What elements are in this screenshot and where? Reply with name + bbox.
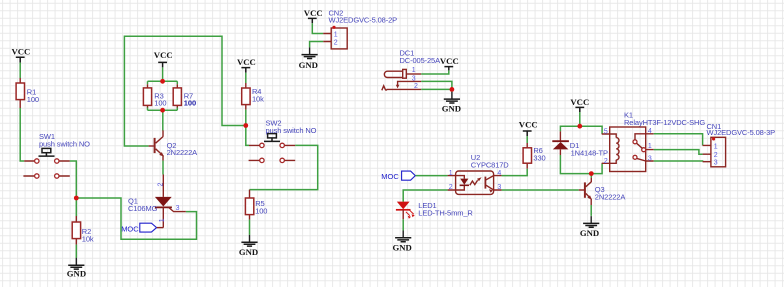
svg-text:VCC: VCC bbox=[440, 56, 459, 66]
ground (DC1) bbox=[442, 92, 461, 114]
junction bbox=[450, 87, 455, 92]
svg-text:3: 3 bbox=[648, 155, 652, 162]
transistor Q2 bbox=[149, 130, 198, 160]
wire bbox=[162, 161, 164, 175]
svg-text:3: 3 bbox=[412, 76, 416, 83]
wire bbox=[245, 110, 247, 126]
junction bbox=[243, 123, 248, 128]
wire bbox=[402, 219, 404, 230]
wire bbox=[249, 220, 251, 235]
junction bbox=[589, 171, 594, 176]
wire bbox=[70, 161, 77, 198]
wire bbox=[560, 126, 602, 134]
wire bbox=[654, 160, 703, 163]
svg-text:VCC: VCC bbox=[519, 120, 538, 130]
power VCC (net VCC, section 1) bbox=[12, 47, 31, 63]
wire bbox=[502, 169, 528, 176]
connector DC1 bbox=[382, 48, 440, 90]
power VCC (R6) bbox=[519, 120, 538, 137]
svg-text:1: 1 bbox=[159, 218, 166, 222]
wire bbox=[654, 150, 703, 155]
svg-text:100: 100 bbox=[255, 207, 267, 216]
wire bbox=[654, 134, 703, 146]
wire bbox=[310, 42, 324, 48]
net label MOC (right) bbox=[381, 171, 415, 181]
svg-text:MOC: MOC bbox=[381, 172, 399, 181]
wire bbox=[403, 190, 447, 202]
svg-text:2: 2 bbox=[334, 39, 338, 46]
svg-text:LED-TH-5mm_R: LED-TH-5mm_R bbox=[418, 209, 473, 218]
svg-text:VCC: VCC bbox=[12, 47, 31, 57]
wire bbox=[250, 145, 318, 189]
wire (parallel rails) bbox=[148, 81, 178, 110]
svg-text:3: 3 bbox=[176, 205, 180, 212]
wire bbox=[560, 155, 602, 174]
wire bbox=[312, 23, 323, 33]
ground (section 3) bbox=[239, 235, 258, 257]
svg-text:10k: 10k bbox=[252, 95, 264, 104]
svg-text:C106MG: C106MG bbox=[128, 204, 158, 213]
wire bbox=[20, 108, 24, 161]
ground (LED1) bbox=[393, 231, 412, 253]
svg-text:CYPC817D: CYPC817D bbox=[471, 161, 510, 170]
wire (base loop over the top) bbox=[124, 36, 243, 146]
wire bbox=[162, 67, 164, 81]
resistor R5 bbox=[245, 190, 267, 220]
wire bbox=[421, 70, 449, 74]
power VCC (section 2) bbox=[154, 50, 173, 67]
svg-text:3: 3 bbox=[714, 160, 718, 167]
ground (Q3) bbox=[580, 216, 599, 238]
wire bbox=[451, 89, 453, 92]
connector CN2 bbox=[323, 8, 397, 49]
svg-text:1N4148-TP: 1N4148-TP bbox=[571, 148, 608, 157]
wire bbox=[421, 81, 452, 89]
svg-text:DC-005-25A: DC-005-25A bbox=[400, 56, 441, 65]
push switch SW2 bbox=[249, 118, 317, 162]
svg-text:1: 1 bbox=[714, 143, 718, 150]
svg-text:GND: GND bbox=[442, 104, 461, 114]
svg-text:MOC: MOC bbox=[121, 225, 139, 234]
svg-text:GND: GND bbox=[239, 247, 258, 257]
svg-text:GND: GND bbox=[393, 242, 412, 252]
svg-text:100: 100 bbox=[184, 99, 197, 108]
svg-text:10k: 10k bbox=[82, 234, 94, 243]
svg-text:100: 100 bbox=[154, 99, 166, 108]
resistor R6 bbox=[523, 143, 545, 169]
push switch SW1 bbox=[23, 132, 90, 178]
svg-text:2: 2 bbox=[414, 83, 418, 90]
resistor R2 bbox=[72, 216, 94, 245]
transistor Q3 bbox=[579, 178, 626, 205]
svg-text:3: 3 bbox=[497, 184, 501, 191]
svg-text:2: 2 bbox=[449, 184, 453, 191]
ground (section 1) bbox=[67, 258, 86, 279]
wire bbox=[590, 205, 592, 216]
svg-text:2: 2 bbox=[604, 158, 608, 165]
svg-text:GND: GND bbox=[580, 228, 599, 238]
relay K1 bbox=[602, 110, 706, 171]
resistor R4 bbox=[242, 83, 264, 110]
svg-text:2N2222A: 2N2222A bbox=[167, 148, 198, 157]
svg-text:WJ2EDGVC-5.08-2P: WJ2EDGVC-5.08-2P bbox=[329, 16, 398, 25]
wire (SW1 node to SCR gate loop) bbox=[78, 198, 196, 239]
svg-text:330: 330 bbox=[533, 154, 545, 163]
svg-text:100: 100 bbox=[27, 95, 39, 104]
svg-text:1: 1 bbox=[334, 31, 338, 38]
wire (opto pin3 to Q3 base) bbox=[502, 189, 579, 191]
thyristor Q1 bbox=[128, 175, 186, 228]
svg-text:1: 1 bbox=[412, 67, 416, 74]
junction bbox=[577, 124, 582, 129]
svg-text:1: 1 bbox=[449, 170, 453, 177]
resistor R1 bbox=[16, 78, 39, 108]
wire bbox=[416, 175, 448, 177]
resistor R7 bbox=[173, 84, 196, 107]
net label MOC (left) bbox=[121, 223, 163, 233]
wire bbox=[75, 245, 77, 258]
svg-text:4: 4 bbox=[497, 170, 501, 177]
wire bbox=[579, 112, 581, 126]
wire bbox=[526, 136, 528, 143]
svg-text:WJ2EDGVC-5.08-3P: WJ2EDGVC-5.08-3P bbox=[707, 128, 776, 137]
svg-text:RelayHT3F-12VDC-SHG: RelayHT3F-12VDC-SHG bbox=[624, 118, 705, 127]
wire bbox=[75, 198, 77, 216]
svg-text:1: 1 bbox=[648, 143, 652, 150]
svg-text:VCC: VCC bbox=[304, 8, 323, 18]
power VCC (relay) bbox=[570, 97, 589, 112]
resistor R3 bbox=[143, 84, 166, 107]
LED LED1 bbox=[396, 201, 473, 219]
svg-text:GND: GND bbox=[299, 60, 318, 70]
diode D1 bbox=[552, 131, 608, 157]
junction bbox=[74, 196, 79, 201]
wire bbox=[245, 73, 247, 83]
svg-text:VCC: VCC bbox=[237, 57, 256, 67]
svg-text:push switch NO: push switch NO bbox=[266, 126, 317, 135]
svg-text:GND: GND bbox=[67, 268, 86, 278]
svg-text:VCC: VCC bbox=[570, 97, 589, 107]
junction bbox=[160, 108, 165, 113]
svg-text:4: 4 bbox=[648, 128, 652, 135]
power VCC (DC1) bbox=[440, 56, 459, 70]
svg-text:5: 5 bbox=[604, 128, 608, 135]
power VCC (CN2) bbox=[304, 8, 323, 23]
svg-text:VCC: VCC bbox=[154, 50, 173, 60]
wire bbox=[590, 174, 592, 178]
wire bbox=[19, 63, 21, 78]
svg-text:2: 2 bbox=[714, 152, 718, 159]
svg-text:2N2222A: 2N2222A bbox=[595, 193, 626, 202]
optocoupler U2 bbox=[448, 153, 510, 194]
ground (CN2) bbox=[299, 47, 318, 70]
connector CN1 bbox=[703, 122, 776, 167]
wire bbox=[246, 126, 249, 146]
junction bbox=[160, 79, 165, 84]
wire bbox=[162, 110, 164, 130]
svg-text:push switch NO: push switch NO bbox=[39, 140, 90, 149]
power VCC (section 3) bbox=[237, 57, 256, 73]
